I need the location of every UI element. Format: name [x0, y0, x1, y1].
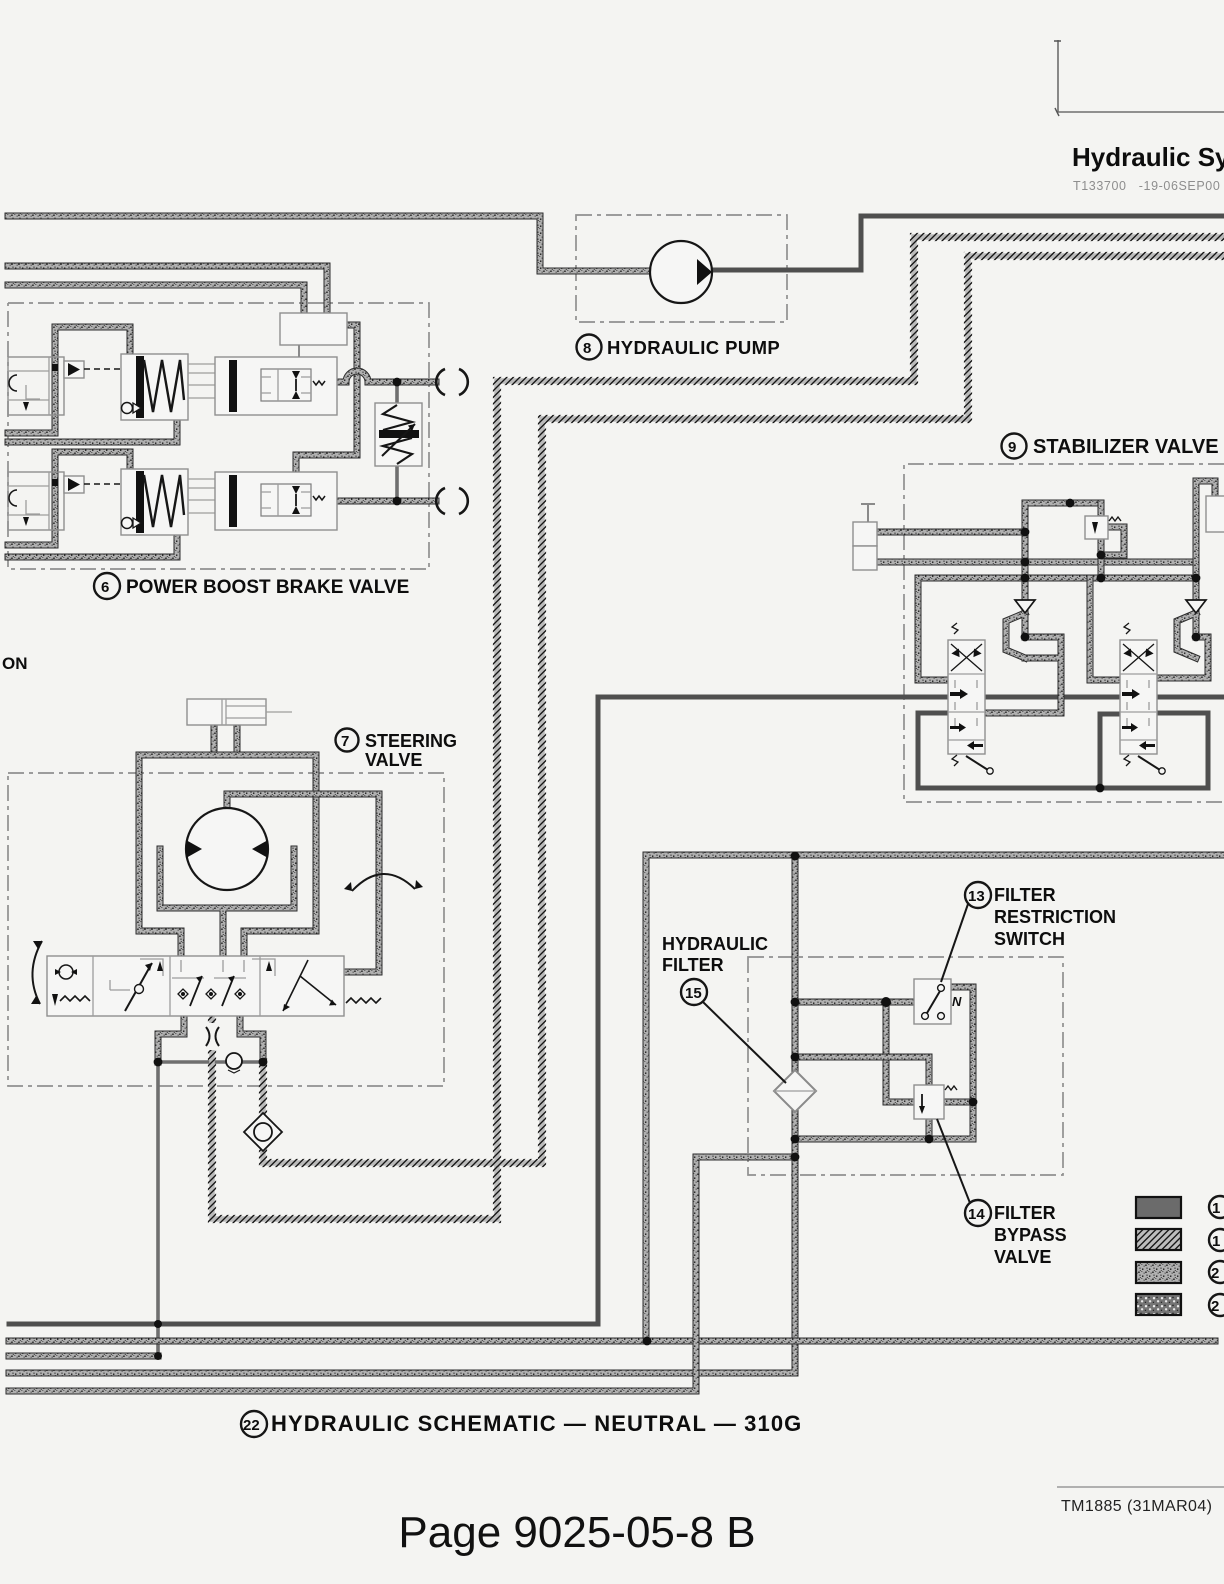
footer TM reference — [1057, 1486, 1224, 1488]
svg-text:14: 14 — [968, 1206, 985, 1223]
steering rotation arrow right — [344, 874, 423, 891]
steering motor (gerotor) — [186, 808, 268, 890]
svg-text:Page 9025-05-8 B: Page 9025-05-8 B — [398, 1508, 755, 1557]
svg-text:2: 2 — [1211, 1265, 1219, 1282]
svg-text:FILTER: FILTER — [994, 885, 1056, 905]
svg-text:STABILIZER VALVE: STABILIZER VALVE — [1033, 436, 1219, 458]
label: 9 STABILIZER VALVE — [1002, 434, 1219, 459]
brake valve row2 solenoid arrow — [64, 476, 121, 493]
wire: filter loop right and bottom — [795, 987, 973, 1139]
wire: check valve 2 pentagon and drop — [1155, 481, 1215, 678]
brake valve row1 booster body — [215, 357, 337, 415]
wire: steering valve right drop — [240, 1015, 263, 1062]
wire: lower manifold line 3 — [9, 1157, 795, 1391]
wire: brake row1 left U-line — [8, 327, 130, 433]
brake valve row2 connector lines — [188, 479, 215, 513]
steering cylinder — [187, 699, 292, 725]
legend swatch 4 dark speckled — [1136, 1294, 1181, 1315]
svg-text:T133700 -19-06SEP00: T133700 -19-06SEP00 — [1073, 179, 1220, 193]
svg-text:7: 7 — [341, 733, 349, 750]
wire: main supply line to stabilizer spools and bottom manifold — [9, 697, 1224, 1324]
svg-text:1: 1 — [1212, 1233, 1220, 1250]
svg-text:HYDRAULIC: HYDRAULIC — [662, 934, 768, 954]
svg-text:BYPASS: BYPASS — [994, 1225, 1067, 1245]
enclosure border: steering valve box — [8, 773, 444, 1086]
wire: steering LS loop — [227, 794, 379, 972]
wire: steering drain vertical — [156, 1062, 160, 1356]
steering control valve body — [47, 956, 381, 1016]
svg-text:RESTRICTION: RESTRICTION — [994, 907, 1116, 927]
label: 15 HYDRAULIC FILTER — [662, 934, 786, 1083]
stabilizer pressure reducing valve — [1085, 516, 1121, 539]
filter bypass valve — [914, 1085, 957, 1119]
brake valve row2 inlet body — [8, 472, 64, 530]
wire: tank header line — [646, 855, 1224, 1341]
brake valve row1 pilot head box — [280, 313, 347, 345]
svg-text:N: N — [952, 994, 962, 1009]
steering check ball — [226, 1053, 242, 1073]
legend circled numbers — [1209, 1196, 1224, 1316]
enclosure border: hydraulic filter box — [748, 957, 1063, 1175]
label: 8 HYDRAULIC PUMP — [577, 335, 781, 360]
legend swatch 3 speckled — [1136, 1262, 1181, 1283]
brake port circle row2 — [436, 488, 468, 514]
stabilizer check valve 1 — [1015, 600, 1035, 613]
wire: brake row1 output with bridge — [338, 371, 436, 382]
wire: stabilizer spool2 left L — [1090, 578, 1120, 680]
steering rotation arrow left — [31, 941, 42, 1004]
svg-text:22: 22 — [243, 1417, 260, 1434]
wire: brake row2 output — [338, 498, 436, 505]
wire: brake row2 bottom return — [8, 533, 177, 557]
wire: stabilizer cylinder line lower — [877, 559, 1196, 566]
svg-text:6: 6 — [101, 579, 109, 596]
stabilizer cylinder stub — [853, 504, 877, 570]
junction dots — [393, 378, 402, 387]
svg-text:HYDRAULIC SCHEMATIC — NEUTRAL: HYDRAULIC SCHEMATIC — NEUTRAL — 310G — [271, 1411, 802, 1436]
brake valve row2 spring/spool body — [121, 469, 188, 535]
svg-text:STEERING: STEERING — [365, 731, 457, 751]
brake valve row1 connector lines — [188, 364, 215, 398]
svg-text:8: 8 — [583, 340, 591, 357]
wire: stabilizer reducing valve drop — [1101, 503, 1124, 578]
header corner bracket — [1058, 40, 1224, 112]
label: 13 FILTER RESTRICTION SWITCH — [941, 882, 1116, 982]
label: 6 POWER BOOST BRAKE VALVE — [94, 573, 409, 599]
wire: stabilizer crossover line — [918, 578, 1196, 680]
svg-text:2: 2 — [1211, 1298, 1219, 1315]
brake valve row1 inlet body — [8, 357, 64, 415]
stabilizer right edge cylinder stub — [1206, 496, 1224, 532]
svg-text:9: 9 — [1008, 439, 1016, 456]
hydraulic pump symbol — [650, 241, 712, 303]
brake valve row1 solenoid arrow — [64, 361, 121, 378]
svg-text:SWITCH: SWITCH — [994, 929, 1065, 949]
svg-text:FILTER: FILTER — [994, 1203, 1056, 1223]
svg-text:ON: ON — [2, 654, 28, 673]
wire: return line from steering pilot/diamond to reservoir (hatched) — [263, 256, 1224, 1163]
svg-text:FILTER: FILTER — [662, 955, 724, 975]
svg-text:Hydraulic Sys: Hydraulic Sys — [1072, 142, 1224, 172]
wire: steering motor outer loop — [139, 755, 316, 959]
svg-text:VALVE: VALVE — [365, 750, 422, 770]
enclosure border: stabilizer valve box — [904, 464, 1224, 802]
label: 14 FILTER BYPASS VALVE — [937, 1119, 1067, 1267]
wire: brake row1 bottom return — [8, 420, 177, 442]
hydraulic filter element — [774, 1070, 816, 1112]
steering drain diamond restrictor — [244, 1113, 282, 1151]
steering orifice symbol — [200, 1023, 225, 1050]
wire: stabilizer return U-line — [918, 713, 1208, 788]
enclosure border: hydraulic pump box — [576, 215, 787, 322]
stabilizer spool valve 2 — [1120, 623, 1165, 774]
wire: check valve 1 pentagon — [985, 613, 1061, 713]
stabilizer check valve 2 — [1186, 600, 1206, 613]
legend swatch 1 solid — [1136, 1197, 1181, 1218]
wire: steering motor inner U — [160, 849, 294, 959]
brake valve row1 spring/spool body — [121, 354, 188, 420]
svg-text:POWER BOOST BRAKE VALVE: POWER BOOST BRAKE VALVE — [126, 577, 409, 598]
wire: lower manifold line 1 — [9, 1338, 1215, 1345]
wire: relief valve connector top — [395, 382, 399, 403]
wire: return line from steering valve spool to reservoir (hatched) — [212, 237, 1224, 1219]
wire: lower manifold line 2 — [9, 1353, 158, 1360]
wire: filter supply vertical and bottom run — [9, 856, 795, 1373]
svg-text:15: 15 — [685, 985, 702, 1002]
wire: brake row2 left U-line — [8, 452, 130, 545]
enclosure border: power boost brake valve box — [8, 303, 429, 569]
wire: filter switch branch upper — [795, 1002, 914, 1102]
label: 7 STEERING VALVE — [336, 729, 458, 771]
wire: brake pilot supply line lower — [8, 285, 304, 314]
wire: brake pilot-to-row2 line — [296, 325, 357, 470]
wire: steering cylinder drop lines — [214, 725, 237, 751]
filter restriction switch — [914, 979, 962, 1024]
svg-text:1: 1 — [1212, 1200, 1220, 1217]
wire: pump inlet suction line — [8, 216, 652, 271]
wire: steering pilot cross line — [158, 1060, 263, 1064]
wire: filter bypass branch — [795, 1057, 973, 1139]
brake port circle row1 — [436, 369, 468, 395]
wire: brake pilot supply line upper — [8, 266, 327, 314]
brake valve row2 booster body — [215, 472, 337, 530]
wire: steering valve left drop — [158, 1015, 184, 1062]
legend swatch 2 hatched — [1136, 1229, 1181, 1250]
brake relief valve — [375, 403, 422, 466]
wire: stabilizer cylinder line upper — [877, 529, 1025, 536]
svg-text:VALVE: VALVE — [994, 1247, 1051, 1267]
svg-text:13: 13 — [968, 888, 985, 905]
svg-text:HYDRAULIC PUMP: HYDRAULIC PUMP — [607, 337, 780, 358]
wire: pump outlet pressure line — [710, 216, 1224, 270]
stabilizer spool valve 1 — [948, 623, 993, 774]
wire: relief valve connector bottom — [395, 466, 399, 501]
svg-text:TM1885 (31MAR04): TM1885 (31MAR04) — [1061, 1498, 1212, 1515]
wire: stabilizer pilot branch left — [1025, 503, 1101, 601]
caption: 22 HYDRAULIC SCHEMATIC — [241, 1411, 802, 1437]
